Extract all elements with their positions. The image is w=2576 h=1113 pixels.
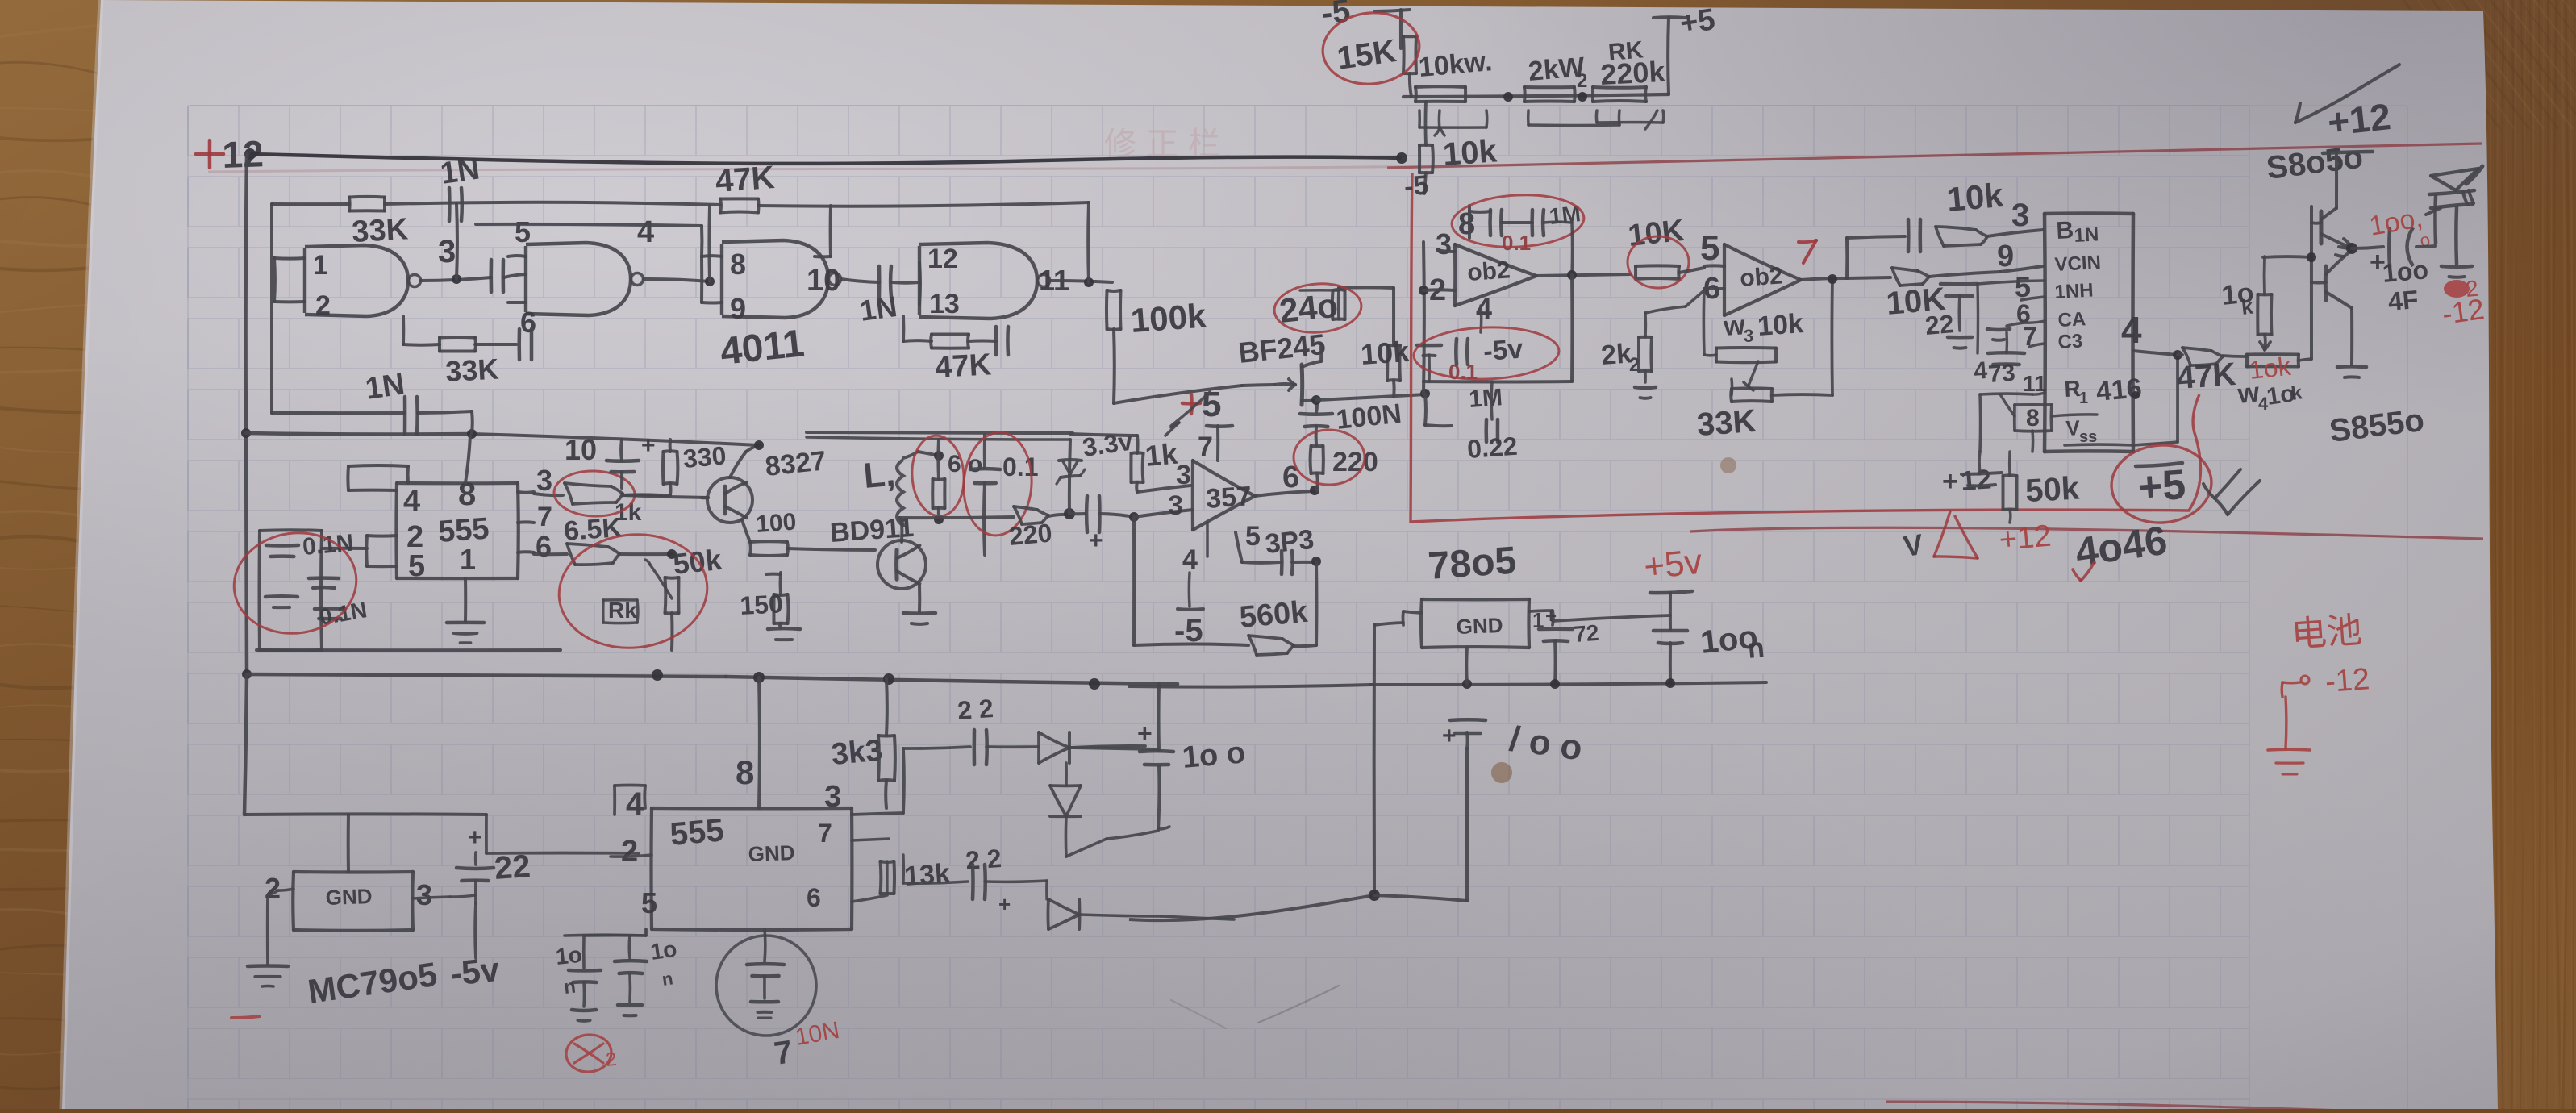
- label +5 supply: [1182, 402, 1200, 406]
- capacitor 100N: [1315, 399, 1319, 412]
- resistor 33K: [1732, 386, 1772, 390]
- wire left bus: [246, 154, 247, 432]
- wire source row: [1316, 394, 1425, 400]
- wire L bottom row: [899, 518, 903, 526]
- resistor 1k: [1070, 434, 1137, 436]
- wire to BF245 gate: [1114, 386, 1242, 403]
- wire top feedback: [385, 202, 720, 205]
- 7805 U7 box: [1422, 598, 1529, 602]
- wire gate feedback box: [270, 204, 273, 413]
- wire long vertical to bottom rail: [1373, 625, 1376, 895]
- capacitor 1N: [403, 397, 407, 434]
- diode 2 down: [1050, 784, 1081, 787]
- resistor 10K lower + cap 22: [1847, 277, 1890, 278]
- wire pot row: [1403, 94, 1669, 97]
- wire pin2: [611, 855, 652, 857]
- resistor 240 circled: [1339, 286, 1394, 290]
- wire 1N row: [476, 224, 702, 226]
- capacitor 10n b: [627, 936, 631, 958]
- 555 timer U8: [652, 807, 852, 811]
- transistor Q4 S8550: [2324, 266, 2328, 300]
- capacitor 10n a: [582, 936, 586, 968]
- MC7905 U9: [294, 870, 413, 874]
- red switch -12: [2280, 682, 2283, 697]
- printed red second line: [1690, 527, 2483, 539]
- wire mid rail: [246, 433, 472, 434]
- resistor 10k below rail: [1419, 144, 1432, 147]
- wire base tie: [2310, 206, 2313, 359]
- capacitor 100u out: [2352, 247, 2383, 248]
- diode 1: [1037, 732, 1040, 763]
- pin 8 box: [2015, 403, 2052, 406]
- capacitor 22: [1539, 627, 1573, 632]
- wire gate1 out: [421, 277, 491, 281]
- wire pins 2,5: [367, 534, 397, 538]
- gate U1D pins 12,13,11: [919, 243, 1037, 319]
- transistor Q1 8327: [707, 477, 752, 523]
- capacitor 100 mid: [1450, 718, 1486, 722]
- resistor 10k vertical: [1387, 344, 1400, 347]
- red triangle annotation: [1934, 511, 1950, 556]
- pin 4 / -5: [1206, 523, 1209, 556]
- wire bottom rail: [247, 674, 726, 677]
- wire gate3 out: [841, 279, 879, 282]
- wire vss row: [2052, 415, 2097, 416]
- zener 3.3v: [1069, 440, 1070, 514]
- 7805 gnd stem: [1465, 648, 1469, 684]
- capacitor 1N gate3-gate4: [877, 266, 882, 297]
- node +12 supply: [196, 152, 223, 156]
- resistor 680 (circled): [933, 477, 945, 481]
- diode 3: [1047, 899, 1050, 929]
- gate U1C pins 8,9,10: [722, 240, 828, 318]
- resistor 150: [774, 593, 788, 597]
- wire red box tick: [2203, 484, 2215, 498]
- feedback 1M / 0.22: [1570, 275, 1574, 381]
- resistor 100k: [1107, 289, 1121, 293]
- wire diode to cap: [1069, 748, 1158, 749]
- wire 555 pin5 caps: [644, 929, 648, 936]
- stain spot: [1491, 762, 1512, 783]
- resistor 10k pin3: [1936, 227, 1976, 230]
- red box around filter: [1411, 173, 2201, 522]
- gate U1A (4011) pins 1,2,3: [305, 245, 408, 316]
- printed red header line: [208, 144, 2482, 172]
- resistor 560k feedback: [1315, 562, 1318, 645]
- resistor 33K: [349, 195, 385, 199]
- wire pin4/8 hook: [406, 466, 410, 483]
- resistor 47K top: [720, 197, 758, 200]
- printed red bottom line: [1886, 1102, 2343, 1111]
- wire +12 T: [2323, 152, 2373, 153]
- capacitor 0.1 (circled): [983, 435, 986, 468]
- resistor 10K circled feedback: [1636, 264, 1679, 268]
- wire 7805 out: [1529, 611, 1553, 611]
- resistor 220 circled: [1311, 444, 1323, 448]
- resistor 100: [742, 520, 750, 542]
- resistor 33K lower: [440, 336, 475, 340]
- wire node into box: [1423, 394, 1428, 425]
- wire 1N loop bottom: [272, 411, 405, 415]
- speaker: [2416, 246, 2436, 247]
- resistor 50k: [2003, 473, 2017, 477]
- capacitor 0.1N pair (circled): [260, 528, 322, 532]
- 555 timer U2: [397, 481, 518, 485]
- circled cap + ground: [763, 929, 766, 961]
- wire to op-amp: [1134, 510, 1193, 517]
- resistor 330: [664, 449, 677, 453]
- capacitor into pin3: [1907, 219, 1911, 252]
- red -12 scribble: [2444, 280, 2470, 298]
- wire to pin3: [1845, 238, 1849, 278]
- wire mid ground rail: [1129, 685, 1371, 687]
- wire bus bottom: [244, 674, 247, 815]
- wire to gate3: [758, 202, 1089, 206]
- resistor 6.5K: [534, 552, 567, 556]
- wire pin4 out: [2133, 351, 2178, 355]
- 4046 U6 box: [2045, 211, 2133, 215]
- wire op-amp out: [1255, 491, 1315, 496]
- resistor 1k (circled pot): [534, 494, 563, 495]
- gate U1B pins 5,6,4: [526, 243, 631, 315]
- wire +12 rail: [250, 154, 1402, 164]
- pot W4 10k: [2247, 352, 2299, 356]
- node A: [241, 428, 251, 438]
- resistor 10k top: [2258, 293, 2272, 296]
- capacitor stub: [517, 329, 521, 360]
- capacitor 1N: [448, 188, 452, 221]
- wire pin1 ground: [464, 578, 467, 621]
- rail double line: [807, 432, 1073, 433]
- capacitor coupling: [1069, 512, 1086, 515]
- resistor 47K lower: [932, 332, 969, 336]
- wire bottom box line: [256, 648, 561, 652]
- faint printed grid: [188, 106, 2249, 1109]
- op-amp U3 357 pin7: [1207, 424, 1232, 428]
- op-amp U3 357: [1191, 461, 1194, 530]
- capacitor C gate1-gate2: [489, 260, 493, 292]
- transistor Q3 S8050: [2319, 211, 2323, 244]
- circled 0.1 / -5v: [1417, 344, 1441, 348]
- wire pin3: [852, 813, 903, 815]
- wire opamp1 out: [1536, 274, 1631, 276]
- 555 pins 3,7,6: [518, 490, 534, 494]
- wire gate2 out: [644, 279, 710, 281]
- resistor 13k: [881, 860, 894, 864]
- wire gate4 out: [1050, 281, 1112, 282]
- resistor 220: [1014, 506, 1037, 510]
- resistor 47K: [2178, 354, 2182, 355]
- red X circle: [565, 1032, 614, 1074]
- wire opamp2 out: [1801, 278, 1847, 280]
